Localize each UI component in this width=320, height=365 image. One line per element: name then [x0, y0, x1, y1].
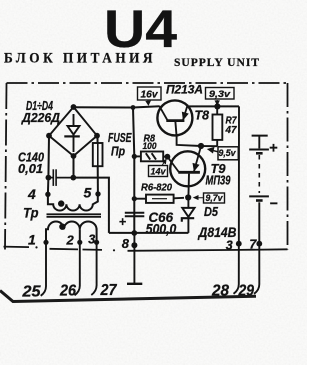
wire: bridge bottom vertex down to C140 node [73, 156, 75, 178]
capacitor C66 [125, 213, 145, 216]
primary winding (pins 4-5) [48, 194, 98, 211]
pin 3 dot (output) [236, 241, 242, 247]
resistor R6 [134, 195, 184, 203]
battery GB [249, 136, 269, 244]
transistor T8 [157, 100, 192, 136]
pin 2 dot [77, 240, 82, 245]
diode inside bridge [73, 114, 75, 126]
node dot R8 right / T9 base [165, 154, 171, 160]
wire: T8 base to T9 collector node and R7 bottom [177, 136, 218, 146]
label box 9,7v [194, 193, 225, 204]
frame right [287, 83, 289, 250]
fuse FUSE Пр [93, 135, 103, 194]
T9 base bar [178, 171, 200, 174]
wire: pin2 lead out to 26 [75, 242, 80, 295]
label box 9,3v [206, 88, 235, 105]
frame top [7, 82, 288, 84]
core lines [47, 213, 102, 215]
node dot R6 left on bus [132, 196, 137, 201]
frame left [5, 83, 7, 250]
label box 9,5v [209, 147, 239, 160]
pin 4 dot [45, 192, 50, 197]
wire: output down to pin 3 and out to 28 [234, 106, 240, 293]
title U4 [104, 0, 178, 59]
capacitor C140 [46, 169, 74, 186]
wire: pin3 lead out to 27 [91, 242, 96, 295]
secondary phase dot [59, 224, 65, 230]
pin 3 dot [94, 240, 99, 245]
zener diode D5 [182, 198, 195, 233]
T9 emitter line with arrow up to node [194, 146, 201, 171]
node dot T9 collector / D5 / 9.7v [185, 194, 191, 200]
page bottom edge [0, 291, 256, 302]
wire: battery lead down to pin 7 and out to 29 [254, 244, 259, 294]
pin 5 dot [95, 191, 100, 196]
T8 base bar [166, 119, 184, 122]
frame bottom [4, 246, 288, 251]
transistor T9 [167, 146, 205, 197]
node dot R8 left on bus [132, 154, 137, 159]
resistor R8 [134, 152, 167, 162]
secondary tap to pin 2 [79, 229, 81, 242]
primary phase dot [58, 200, 64, 206]
node dot rail/C66 [131, 230, 137, 236]
bridge rectifier D1-D4 diamond [46, 104, 100, 159]
secondary winding (pins 1-2-3) [46, 222, 97, 242]
T9 collector lead down [187, 174, 190, 198]
node junction dot at C140/minus wire [70, 175, 76, 181]
wire: ground rail [109, 232, 188, 234]
label box 16v [138, 87, 162, 105]
title БЛОК ПИТАНИЯ [4, 51, 156, 67]
wire: pin1 lead out to 25 [41, 242, 46, 295]
wire: bridge left vertex down to pin 4 [48, 136, 49, 194]
T8 collector line [159, 106, 167, 120]
chassis ground bar [127, 283, 142, 285]
pin 1 dot [43, 240, 48, 245]
transformer Tp [43, 191, 101, 245]
T9 base line from R8 node [167, 157, 178, 172]
pin 8 dot [131, 242, 137, 248]
wire: pin 8 down to chassis [133, 233, 135, 284]
wire: T8 emitter to output corner [189, 105, 239, 107]
T8 base lead down [175, 122, 176, 137]
T8 emitter line with arrow [183, 105, 188, 120]
bridge vertex dots [71, 104, 77, 110]
wire: minus wire right and down to ground rail [73, 178, 109, 233]
node 16v junction dot [131, 105, 136, 110]
node dot T9 emitter junction [198, 143, 204, 149]
pin 7 dot [256, 241, 262, 247]
wire: top rail from bridge to T8 [74, 106, 160, 107]
resistor R7 [213, 106, 223, 146]
label box 14v [149, 160, 168, 178]
node dot at R7 top / 9.3v [214, 103, 220, 109]
wire: vertical bus from 16v node down [133, 108, 134, 234]
title SUPPLY UNIT [174, 55, 260, 69]
